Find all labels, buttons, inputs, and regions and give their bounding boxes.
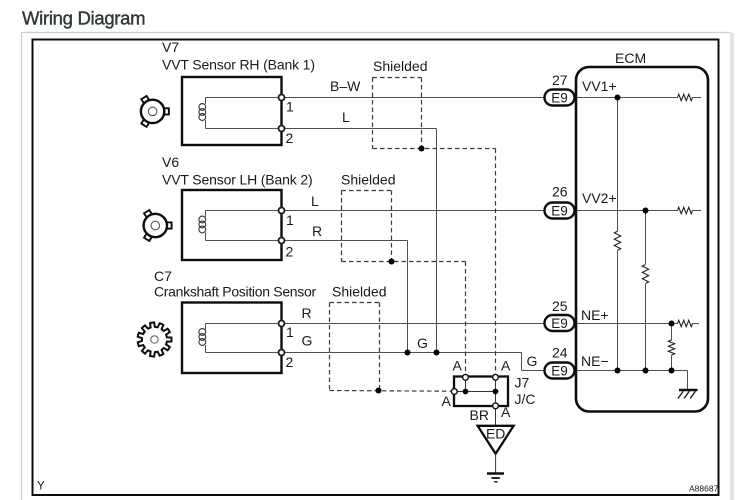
svg-text:L: L [311, 193, 319, 209]
svg-text:2: 2 [286, 244, 294, 260]
svg-text:Crankshaft Position Sensor: Crankshaft Position Sensor [154, 284, 316, 300]
svg-text:25: 25 [552, 298, 568, 314]
svg-text:NE+: NE+ [581, 307, 609, 323]
svg-text:ED: ED [486, 426, 505, 442]
svg-text:R: R [312, 223, 322, 239]
svg-text:G: G [302, 333, 313, 349]
svg-text:BR: BR [470, 407, 489, 423]
svg-text:Y: Y [37, 481, 45, 493]
svg-text:A: A [501, 358, 511, 374]
svg-text:L: L [342, 109, 350, 125]
svg-text:V6: V6 [162, 154, 179, 170]
svg-text:24: 24 [552, 345, 568, 361]
svg-text:J/C: J/C [515, 391, 536, 407]
svg-text:E9: E9 [551, 90, 568, 105]
svg-text:Wiring Diagram: Wiring Diagram [22, 7, 145, 28]
svg-text:Shielded: Shielded [332, 284, 387, 300]
svg-text:1: 1 [286, 99, 294, 115]
svg-text:27: 27 [552, 72, 568, 88]
svg-text:E9: E9 [551, 203, 568, 218]
svg-text:NE−: NE− [581, 353, 609, 369]
svg-text:2: 2 [286, 354, 294, 370]
svg-text:VVT Sensor LH (Bank 2): VVT Sensor LH (Bank 2) [162, 172, 313, 188]
svg-text:VV1+: VV1+ [582, 78, 617, 94]
svg-text:1: 1 [286, 212, 294, 228]
svg-text:G: G [417, 335, 428, 351]
svg-text:R: R [302, 305, 312, 321]
svg-text:Shielded: Shielded [373, 58, 428, 74]
svg-text:A: A [453, 358, 463, 374]
svg-text:G: G [527, 353, 538, 369]
svg-text:A: A [501, 404, 511, 420]
svg-text:C7: C7 [154, 268, 172, 284]
svg-text:J7: J7 [515, 375, 530, 391]
svg-text:ECM: ECM [615, 50, 646, 66]
svg-text:A88687: A88687 [689, 484, 719, 494]
svg-text:A: A [442, 393, 452, 409]
svg-text:E9: E9 [551, 363, 568, 378]
svg-text:Shielded: Shielded [341, 172, 396, 188]
svg-text:1: 1 [286, 324, 294, 340]
svg-text:VVT Sensor RH (Bank 1): VVT Sensor RH (Bank 1) [162, 57, 315, 73]
svg-text:2: 2 [286, 130, 294, 146]
svg-text:B–W: B–W [330, 78, 361, 94]
svg-text:V7: V7 [162, 39, 179, 55]
svg-text:E9: E9 [551, 316, 568, 331]
svg-text:26: 26 [552, 184, 568, 200]
svg-text:VV2+: VV2+ [582, 190, 617, 206]
